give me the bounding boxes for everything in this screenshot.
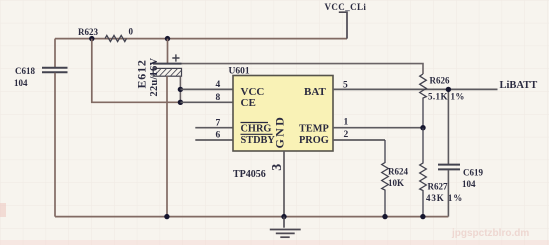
svg-text:104: 104 [14, 78, 28, 88]
node: R627 bottom junction [420, 214, 425, 219]
svg-text:E612: E612 [135, 59, 149, 88]
svg-text:6: 6 [216, 131, 221, 141]
capacitor E612 22u/16V electrolytic [135, 39, 182, 217]
wire: top VCC rail [55, 38, 347, 40]
capacitor C619 104 [438, 89, 483, 216]
svg-text:GND: GND [273, 115, 287, 149]
node: R624 bottom junction [382, 214, 387, 219]
scan artifact: bottom pink band [0, 240, 549, 245]
wire: pin 7 stub [195, 127, 233, 129]
svg-text:U601: U601 [229, 67, 250, 77]
svg-text:VCC_CLi: VCC_CLi [325, 2, 367, 12]
svg-text:4: 4 [216, 80, 221, 90]
wire: pin 3 GND down [283, 151, 285, 217]
wire: pin 1 TEMP [333, 127, 423, 129]
node: junction on rail left of R623 [89, 36, 94, 41]
wire: pin 4 stub [180, 88, 233, 90]
svg-text:R626: R626 [430, 76, 450, 86]
ground [270, 217, 301, 238]
resistor R623 value 0 [78, 27, 134, 42]
svg-text:5: 5 [343, 80, 348, 90]
svg-text:TP4056: TP4056 [233, 169, 266, 180]
svg-text:10K: 10K [388, 178, 404, 188]
wire: pin 2 PROG down to R624 [333, 139, 385, 141]
svg-text:1: 1 [344, 118, 349, 128]
svg-text:104: 104 [462, 179, 476, 189]
svg-text:CE: CE [241, 97, 256, 109]
svg-text:R627: R627 [428, 182, 448, 192]
svg-text:CHRG: CHRG [241, 124, 272, 135]
bottom pin to ground rail [166, 76, 168, 216]
svg-text:3: 3 [270, 164, 285, 171]
wire: feeder from rail down to CE node [92, 39, 181, 103]
node: junction on rail at E612 [165, 36, 170, 41]
wire: pin 8 stub [180, 101, 233, 103]
svg-text:STDBY: STDBY [241, 135, 276, 146]
svg-text:7: 7 [216, 119, 221, 129]
node: VCC pin junction [178, 87, 183, 92]
capacitor C618 [14, 39, 68, 217]
node: GND pin junction [281, 214, 286, 219]
scan artifact: left edge pink smudge [0, 203, 6, 217]
svg-text:LiBATT: LiBATT [500, 80, 538, 91]
svg-text:TEMP: TEMP [299, 124, 329, 135]
node: CE pin junction [178, 100, 183, 105]
node: E612 bottom junction [164, 214, 169, 219]
wire: bottom ground rail [55, 216, 448, 218]
svg-text:BAT: BAT [304, 86, 326, 98]
svg-text:VCC: VCC [241, 86, 265, 98]
wire: stub from box edge down to CE node [179, 76, 181, 102]
wire: pin 6 stub [195, 139, 233, 141]
power port VCC_CLi [325, 2, 367, 39]
svg-text:C619: C619 [463, 168, 483, 178]
svg-text:R624: R624 [388, 167, 408, 177]
hatched bottom plate [153, 68, 181, 76]
plus sign [172, 54, 179, 61]
node: TEMP junction [420, 125, 425, 130]
svg-text:8: 8 [216, 93, 221, 103]
wire: pin 5 BAT to LiBATT [333, 88, 498, 90]
svg-text:5.1K 1%: 5.1K 1% [428, 92, 465, 102]
wire: VCC plate extension to R626 [182, 64, 424, 74]
svg-text:22u/16V: 22u/16V [149, 58, 160, 97]
resistor R626 5.1K 1% [420, 74, 465, 128]
svg-text:PROG: PROG [299, 135, 329, 146]
svg-text:2: 2 [344, 130, 349, 140]
resistor R627 43K 1% [420, 128, 463, 217]
svg-text:0: 0 [129, 27, 134, 37]
svg-text:43K 1%: 43K 1% [426, 193, 463, 203]
svg-text:C618: C618 [15, 66, 35, 76]
top plate [153, 63, 182, 65]
node: LiBATT junction at C619 [446, 87, 451, 92]
op-amp U601 chip body TP4056 [229, 67, 334, 181]
svg-text:jpgspctzblro.dm: jpgspctzblro.dm [451, 228, 529, 239]
resistor R624 10K [382, 140, 409, 217]
svg-text:R623: R623 [78, 27, 98, 37]
